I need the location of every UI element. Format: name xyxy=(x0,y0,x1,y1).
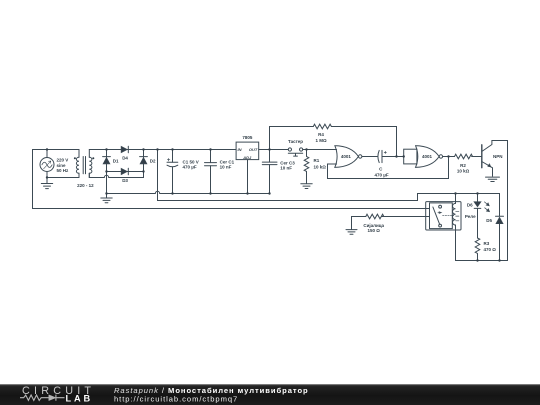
svg-text:220 V: 220 V xyxy=(57,157,69,162)
wire 12V drop to relay net xyxy=(158,150,500,217)
wire mains top xyxy=(33,149,80,151)
nor gate U3 4001 xyxy=(416,146,443,168)
svg-text:470 µF: 470 µF xyxy=(375,172,389,177)
wire power ground rail with hop xyxy=(107,191,270,193)
svg-text:50 Hz: 50 Hz xyxy=(57,168,70,173)
svg-text:R4: R4 xyxy=(318,132,324,137)
svg-text:4001: 4001 xyxy=(422,154,433,159)
svg-text:IN: IN xyxy=(238,147,242,152)
svg-text:10 nF: 10 nF xyxy=(280,166,292,171)
svg-text:D4: D4 xyxy=(122,155,128,160)
relay switch box xyxy=(430,203,453,229)
svg-text:10 nF: 10 nF xyxy=(220,164,232,169)
ground NPN emitter xyxy=(486,177,500,181)
relay arrow xyxy=(438,212,442,214)
wire R4 rail xyxy=(270,127,397,157)
transistor Q1 NPN xyxy=(482,141,508,177)
wire lamp xyxy=(352,216,426,218)
resistor R4 xyxy=(313,124,331,129)
transformer phase dots xyxy=(74,157,94,159)
resistor R3 xyxy=(475,238,480,261)
svg-text:C: C xyxy=(379,167,383,172)
wire NPN collector right side xyxy=(507,141,509,261)
resistor R2 xyxy=(455,154,482,159)
svg-text:7805: 7805 xyxy=(242,135,253,140)
svg-text:150 Ω: 150 Ω xyxy=(368,228,381,233)
ground R1 xyxy=(301,184,312,189)
svg-text:ADJ: ADJ xyxy=(242,155,252,160)
svg-text:D3: D3 xyxy=(122,178,128,183)
resistor Сијалица 150 xyxy=(366,214,384,219)
transformer core xyxy=(83,157,85,174)
diode D4 xyxy=(121,146,128,153)
svg-text:R2: R2 xyxy=(460,163,466,168)
diode D5 xyxy=(496,216,504,260)
wire secondary bottom with hop xyxy=(89,172,143,178)
svg-text:http://circuitlab.com/ctbpmq7: http://circuitlab.com/ctbpmq7 xyxy=(114,395,238,404)
svg-text:10 kΩ: 10 kΩ xyxy=(457,169,470,174)
svg-text:4001: 4001 xyxy=(341,154,352,159)
junction dots xyxy=(46,148,501,261)
svg-text:D1: D1 xyxy=(113,158,119,163)
svg-text:Rastapunk / Моностабилен мулти: Rastapunk / Моностабилен мултивибратор xyxy=(114,386,309,395)
capacitor Cer C1 xyxy=(205,150,217,194)
transformer T1 primary xyxy=(76,150,79,178)
wire gate1 feedback input xyxy=(328,157,449,179)
svg-text:R3: R3 xyxy=(484,241,490,246)
wire gate1 out xyxy=(362,156,377,158)
resistor R1 xyxy=(304,150,309,184)
relay RLY1 outer box xyxy=(426,202,461,230)
svg-text:10 kΩ: 10 kΩ xyxy=(314,164,327,169)
wire secondary top rail xyxy=(89,149,236,151)
relay dashed link xyxy=(443,215,454,217)
wire bottom right rail xyxy=(456,260,508,262)
transformer T1 secondary xyxy=(89,150,92,178)
nor gate U1 4001 xyxy=(335,146,362,168)
wire source bottom xyxy=(47,177,79,179)
wire mains left outer xyxy=(32,150,34,209)
gate2 input tie rectangle xyxy=(404,149,417,164)
capacitor C1 xyxy=(167,150,178,194)
wire gate2 out xyxy=(443,156,455,158)
relay coil L xyxy=(453,194,459,261)
svg-text:1 MΩ: 1 MΩ xyxy=(315,138,327,143)
relay left pins xyxy=(426,209,430,217)
switch SW1 Тастер xyxy=(288,148,302,156)
diode D1 xyxy=(103,150,111,172)
svg-text:R1: R1 xyxy=(314,158,320,163)
wire D1 to ground rail xyxy=(106,172,108,194)
wire mains bottom rail xyxy=(33,208,426,210)
svg-text:D5: D5 xyxy=(486,218,492,223)
wire 7805 out xyxy=(259,149,289,151)
led D6 xyxy=(474,194,490,239)
capacitor Cer C3 xyxy=(262,127,277,194)
relay contacts xyxy=(439,205,442,227)
regulator U2 7805 xyxy=(236,142,259,193)
svg-text:LAB: LAB xyxy=(66,394,94,404)
svg-text:Реле: Реле xyxy=(465,214,476,219)
svg-text:NPN: NPN xyxy=(493,154,503,159)
ground source xyxy=(41,178,52,189)
voltage source V1 220V sine xyxy=(40,150,54,178)
wire bridge low rail xyxy=(107,171,144,173)
svg-text:Тастер: Тастер xyxy=(288,139,303,144)
relay lever xyxy=(433,207,440,224)
ground power rail xyxy=(101,194,112,203)
capacitor C 470uF xyxy=(378,150,404,162)
svg-text:470 µF: 470 µF xyxy=(183,164,197,169)
svg-text:D2: D2 xyxy=(150,158,156,163)
diode D2 xyxy=(140,150,148,172)
ground lamp xyxy=(346,217,357,235)
svg-text:D6: D6 xyxy=(467,202,473,207)
svg-text:220 - 12: 220 - 12 xyxy=(77,183,94,188)
labels xyxy=(57,132,503,252)
svg-text:470 Ω: 470 Ω xyxy=(484,247,497,252)
wire button to gate1 xyxy=(303,149,337,151)
diode D3 xyxy=(121,168,128,175)
logo resistor diode glyph xyxy=(20,395,65,401)
svg-text:OUT: OUT xyxy=(249,147,258,152)
